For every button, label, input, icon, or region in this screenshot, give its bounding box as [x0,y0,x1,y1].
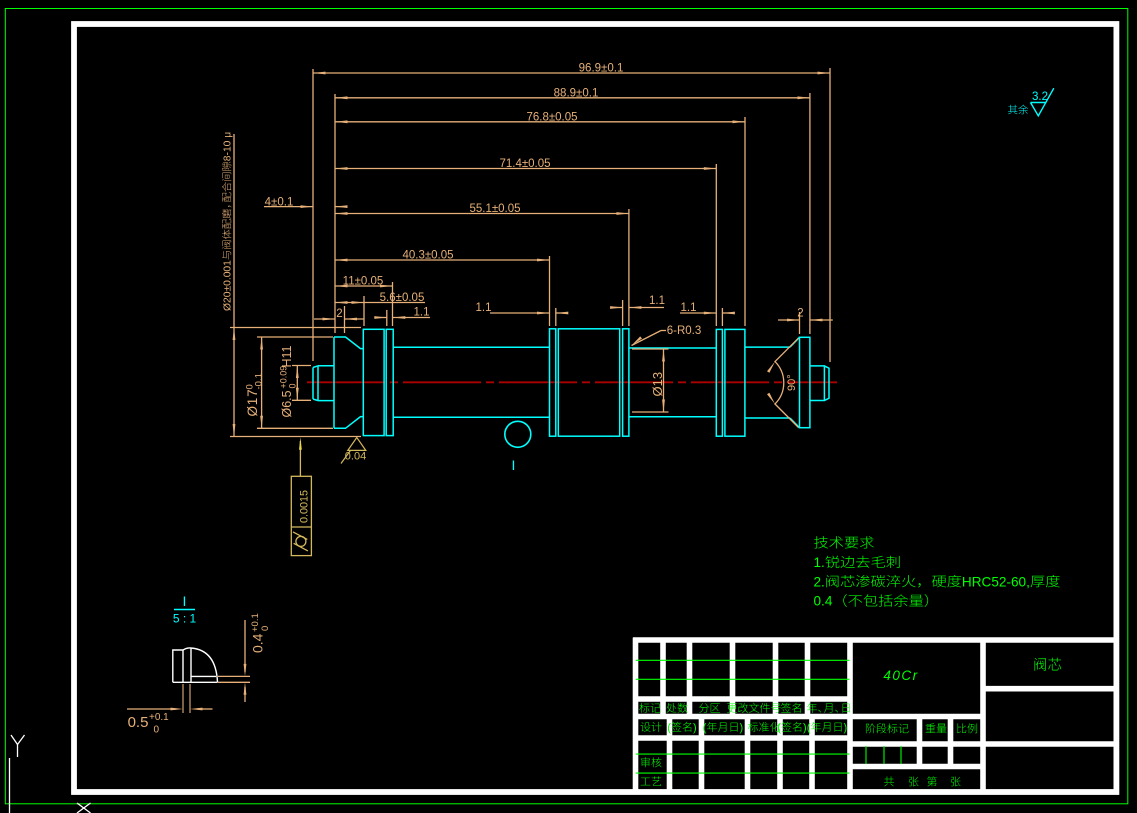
svg-text:1.1: 1.1 [649,295,665,307]
svg-text:1.1: 1.1 [681,302,697,314]
svg-text:-0.1: -0.1 [254,373,265,389]
svg-text:0.4: 0.4 [250,633,266,653]
svg-text:11±0.05: 11±0.05 [343,276,384,288]
svg-text:Ø20±0.001: Ø20±0.001 [223,260,234,311]
svg-text:0.0015: 0.0015 [299,490,311,523]
svg-text:90°: 90° [786,374,798,391]
svg-text:1.: 1. [814,555,825,570]
svg-text:8-10 μ: 8-10 μ [223,132,234,161]
svg-text:2.: 2. [814,574,825,589]
svg-text:): ) [693,722,697,734]
svg-text:H11: H11 [280,345,294,367]
svg-text:55.1±0.05: 55.1±0.05 [469,203,520,215]
svg-text:0: 0 [288,383,298,388]
svg-text:40Cr: 40Cr [883,668,918,683]
svg-text:4±0.1: 4±0.1 [265,196,294,208]
svg-text:5 : 1: 5 : 1 [173,612,197,626]
svg-text:2: 2 [797,308,803,320]
svg-text:6-R0.3: 6-R0.3 [667,325,702,337]
svg-text:(: ( [667,722,671,734]
svg-text:0: 0 [260,626,271,631]
svg-text:88.9±0.1: 88.9±0.1 [554,87,599,99]
svg-text:): ) [844,722,848,734]
svg-text:HRC52-60,: HRC52-60, [962,574,1030,589]
svg-text:40.3±0.05: 40.3±0.05 [402,250,453,262]
svg-text:96.9±0.1: 96.9±0.1 [579,63,624,75]
svg-text:+0.1: +0.1 [149,712,169,723]
svg-text:I: I [512,457,516,473]
svg-text:Ø13: Ø13 [650,372,665,397]
svg-text:0.5: 0.5 [128,714,149,731]
svg-text:0.04: 0.04 [345,451,366,463]
svg-text:5.6±0.05: 5.6±0.05 [380,292,425,304]
svg-text:1.1: 1.1 [476,302,492,314]
svg-text:Ø6.5: Ø6.5 [280,390,294,417]
svg-text:Ø17: Ø17 [245,389,260,417]
svg-text:(: ( [703,722,707,734]
svg-text:71.4±0.05: 71.4±0.05 [499,158,550,170]
svg-text:): ) [740,722,744,734]
svg-text:0: 0 [154,725,160,736]
svg-text:2: 2 [336,308,342,320]
svg-text:I: I [183,593,187,609]
svg-text:3.2: 3.2 [1032,91,1048,103]
svg-text:0.4: 0.4 [814,594,833,609]
svg-text:(: ( [807,722,811,734]
svg-text:76.8±0.05: 76.8±0.05 [526,111,577,123]
svg-text:(: ( [777,722,781,734]
svg-text:1.1: 1.1 [414,307,430,319]
